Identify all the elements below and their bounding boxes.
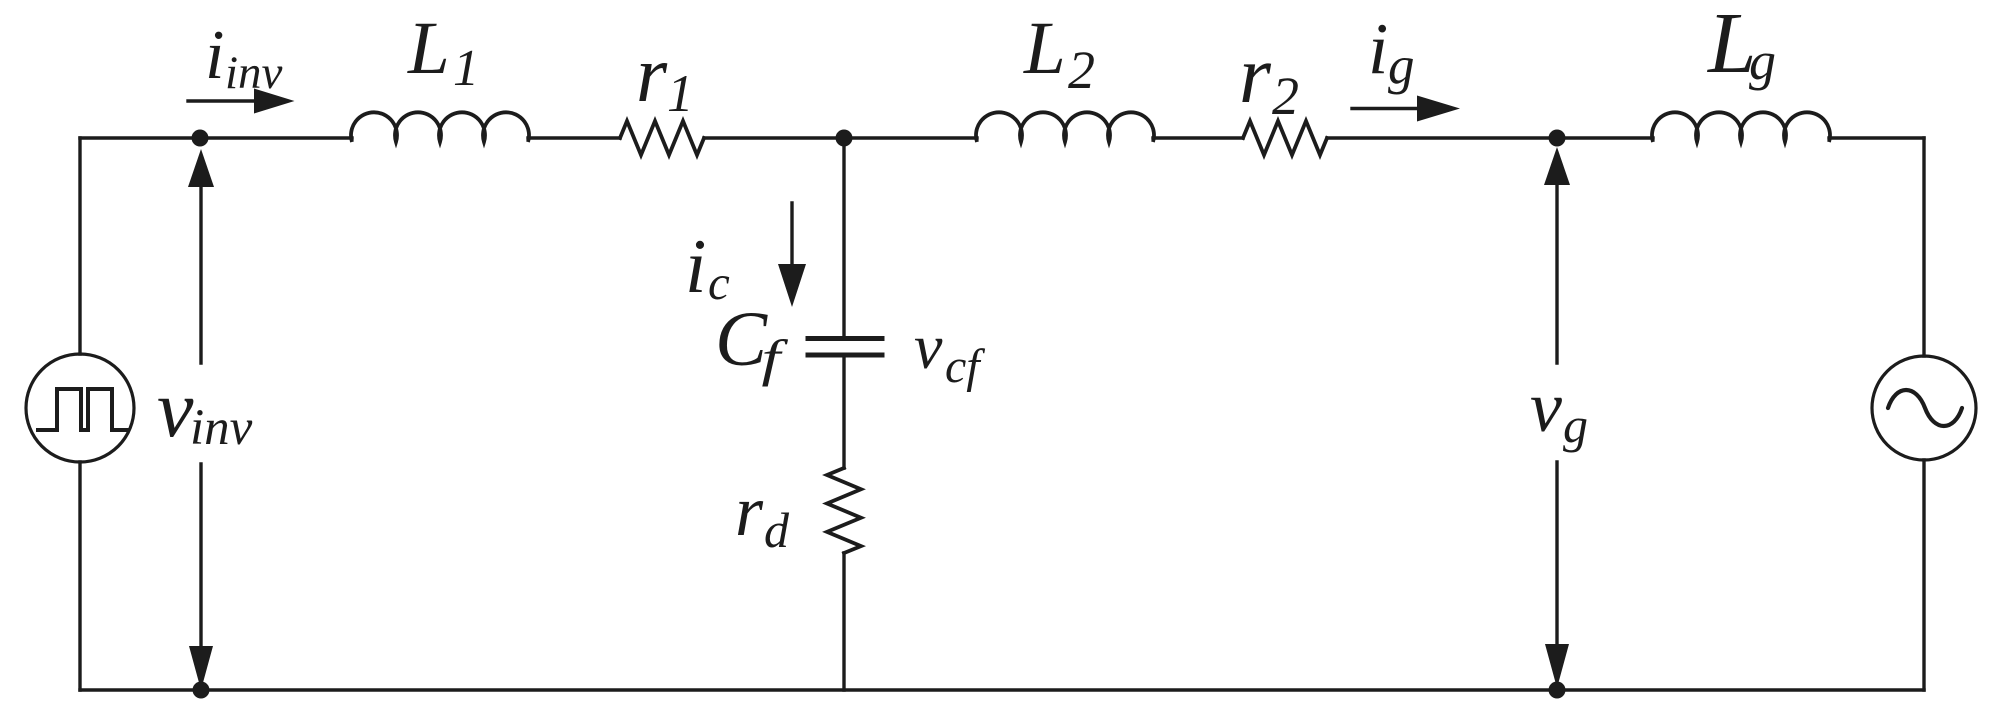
node E dot <box>1549 682 1566 699</box>
svg-text:g: g <box>1388 37 1415 95</box>
arrow vg head up <box>1544 147 1570 185</box>
svg-text:g: g <box>1563 397 1588 453</box>
svg-text:L: L <box>1023 7 1066 90</box>
svg-text:r: r <box>1239 29 1272 120</box>
arrow ic shaft <box>790 203 793 268</box>
svg-text:r: r <box>636 31 668 119</box>
resistor r1 <box>620 121 704 155</box>
svg-text:i: i <box>1368 8 1388 89</box>
wire right branch <box>1922 138 1925 690</box>
svg-text:v: v <box>1530 367 1562 447</box>
arrow ig head <box>1417 96 1460 122</box>
svg-text:g: g <box>1749 31 1776 91</box>
arrow vinv shaft <box>199 185 202 654</box>
node D dot <box>193 682 210 699</box>
wire top rail <box>80 136 1924 139</box>
svg-text:C: C <box>715 295 768 382</box>
svg-text:2: 2 <box>1272 66 1299 126</box>
svg-text:i: i <box>685 223 706 309</box>
inductor L1 <box>351 112 529 142</box>
square wave symbol <box>36 389 129 430</box>
capacitor Cf plates <box>808 339 882 356</box>
wire left branch <box>78 138 81 690</box>
sine wave symbol <box>1888 390 1962 426</box>
svg-text:v: v <box>157 363 194 454</box>
resistor rd <box>827 468 861 553</box>
arrow iinv head <box>254 89 295 114</box>
inductor L2 <box>976 112 1154 142</box>
svg-text:cf: cf <box>945 340 985 393</box>
svg-text:i: i <box>205 17 224 94</box>
source Vinv circle <box>26 354 134 462</box>
arrow ic head <box>778 264 806 307</box>
node A dot <box>192 130 209 147</box>
wire middle branch <box>842 138 845 690</box>
svg-text:r: r <box>735 471 764 551</box>
svg-text:1: 1 <box>453 40 479 97</box>
node C dot <box>1549 130 1566 147</box>
svg-text:L: L <box>407 7 450 90</box>
arrow vg head down <box>1545 644 1569 688</box>
wire bottom rail <box>80 688 1924 691</box>
arrow ig shaft <box>1352 107 1420 110</box>
svg-text:1: 1 <box>667 65 694 123</box>
svg-text:d: d <box>764 502 790 558</box>
node B dot <box>836 130 853 147</box>
svg-text:2: 2 <box>1068 40 1095 100</box>
arrow vg shaft <box>1555 185 1558 652</box>
resistor r2 <box>1243 121 1327 155</box>
svg-text:v: v <box>914 311 943 382</box>
arrow iinv shaft <box>188 99 258 102</box>
svg-text:inv: inv <box>190 400 253 456</box>
arrow vinv head down <box>189 646 213 690</box>
svg-text:f: f <box>762 330 789 388</box>
svg-text:inv: inv <box>225 47 283 99</box>
source Vg circle <box>1872 356 1976 460</box>
arrow vinv head up <box>188 149 214 187</box>
inductor Lg <box>1652 112 1830 142</box>
